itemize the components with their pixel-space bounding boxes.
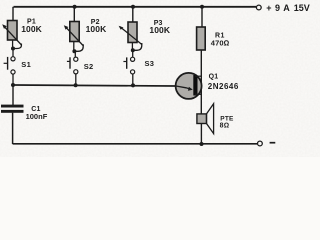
- svg-text:100K: 100K: [21, 24, 42, 34]
- wire: bottom negative rail: [13, 143, 258, 145]
- svg-text:470Ω: 470Ω: [211, 38, 230, 47]
- node: P3 wiper junction: [131, 48, 135, 52]
- transistor Q1 (UJT 2N2646): [176, 73, 202, 99]
- node: top rail / P3 junction: [131, 5, 135, 9]
- wire: speaker to bottom rail: [200, 124, 202, 145]
- svg-text:S3: S3: [145, 59, 155, 68]
- potentiometer P2: [64, 7, 84, 52]
- svg-text:8Ω: 8Ω: [220, 123, 230, 130]
- wire: P3 to S3: [132, 50, 134, 57]
- label P3 100K: [149, 20, 170, 35]
- node: bottom rail / speaker junction: [200, 142, 204, 146]
- label R1 470ohm: [211, 33, 230, 48]
- paper grain overlay: [0, 0, 320, 157]
- svg-text:100K: 100K: [86, 24, 107, 34]
- wire: mid rail down to C1: [12, 85, 14, 105]
- terminal: - supply: [258, 141, 263, 146]
- label P1 100K: [21, 18, 42, 34]
- speaker PTE 8ohm: [197, 104, 214, 134]
- label "-": [270, 142, 276, 144]
- wire: P2 to S2: [74, 51, 76, 57]
- node: mid rail / S2 junction: [74, 83, 78, 87]
- wire: top positive supply rail: [14, 6, 257, 8]
- switch S3 (push-button): [123, 57, 134, 74]
- wire: S2 to mid rail: [75, 74, 77, 85]
- wire: S1 to mid rail: [12, 74, 14, 85]
- svg-text:PTE: PTE: [220, 116, 234, 123]
- potentiometer P1: [2, 7, 21, 49]
- switch S1 (push-button): [4, 57, 16, 74]
- switch S2 (push-button): [67, 57, 78, 74]
- potentiometer P3: [119, 7, 142, 51]
- svg-text:Q1: Q1: [209, 74, 219, 81]
- wire: C1 to bottom rail: [12, 113, 14, 144]
- label P2 100K: [86, 19, 107, 34]
- wire: S3 to mid rail: [132, 74, 134, 85]
- node: P2 wiper junction: [72, 49, 76, 53]
- svg-text:100K: 100K: [149, 25, 170, 35]
- wire: R1 to Q1/speaker: [200, 50, 202, 114]
- capacitor C1: [1, 105, 24, 113]
- wire: P1 to S1: [12, 49, 14, 57]
- svg-text:100nF: 100nF: [26, 112, 48, 121]
- svg-text:2N2646: 2N2646: [208, 82, 239, 91]
- node: top rail / P2 junction: [73, 5, 77, 9]
- resistor R1: [197, 7, 206, 50]
- svg-text:S2: S2: [84, 62, 94, 71]
- label C1 100nF: [26, 106, 48, 121]
- label PTE 8ohm: [220, 116, 234, 130]
- node: mid rail / C1 junction: [11, 83, 15, 87]
- label Q1 2N2646: [208, 74, 239, 91]
- node: top rail / R1 junction: [200, 5, 204, 9]
- svg-text:S1: S1: [21, 60, 31, 69]
- node: P1 wiper junction: [11, 47, 15, 51]
- node: mid rail / S3 junction: [131, 83, 135, 87]
- terminal: + supply: [256, 5, 261, 10]
- wire: mid rail (emitter bus): [13, 85, 176, 86]
